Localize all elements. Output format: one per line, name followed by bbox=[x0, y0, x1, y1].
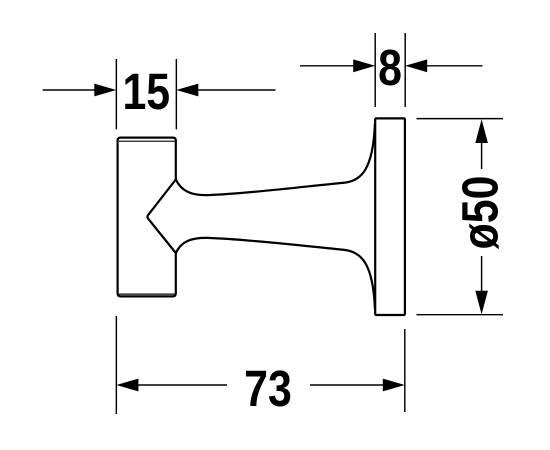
svg-text:15: 15 bbox=[122, 62, 170, 119]
svg-text:8: 8 bbox=[378, 38, 402, 95]
svg-text:ø50: ø50 bbox=[451, 176, 508, 250]
svg-text:73: 73 bbox=[244, 360, 292, 417]
